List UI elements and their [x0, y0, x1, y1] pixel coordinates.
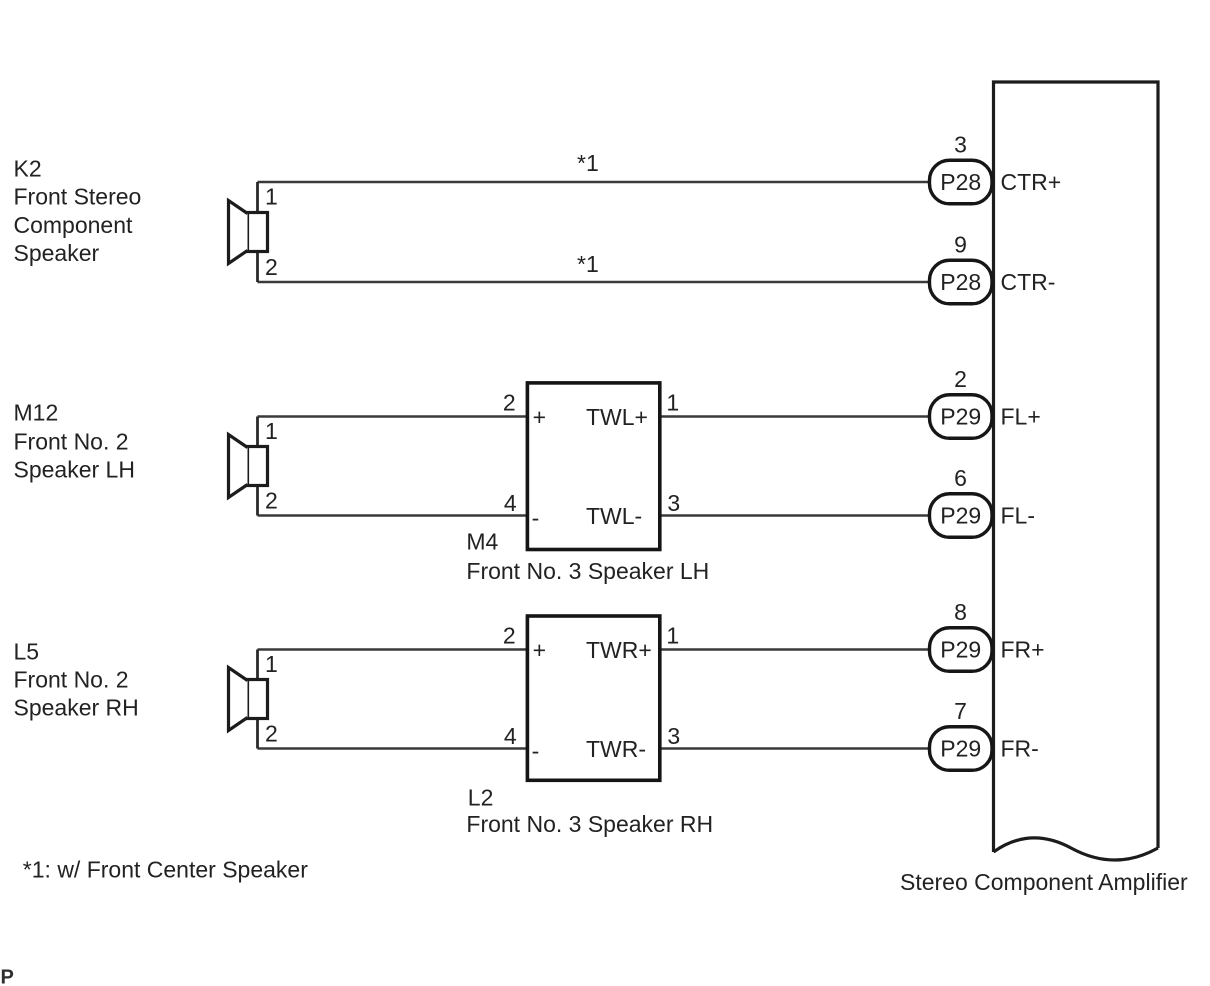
svg-text:Front Stereo: Front Stereo: [14, 184, 142, 210]
wire M4 pin3 to P29-6: [660, 514, 930, 517]
wire L2 pin1 to P29-8: [660, 648, 930, 651]
svg-text:Front No. 3 Speaker LH: Front No. 3 Speaker LH: [466, 558, 709, 584]
svg-text:8: 8: [954, 599, 967, 625]
svg-text:TWR+: TWR+: [586, 637, 652, 663]
svg-text:Speaker: Speaker: [14, 240, 100, 266]
amplifier box (Stereo Component Amplifier): [994, 82, 1159, 860]
svg-text:1: 1: [265, 418, 278, 444]
svg-text:1: 1: [666, 390, 679, 416]
svg-text:2: 2: [265, 721, 278, 747]
connector P29 pin8 (FR+): [930, 599, 1045, 671]
svg-text:L2: L2: [468, 785, 494, 811]
svg-text:P29: P29: [940, 736, 981, 762]
wire K2 pin2 to P28-9: [258, 281, 931, 284]
svg-text:1: 1: [666, 623, 679, 649]
wire L5 pin2 to L2 pin4: [258, 747, 528, 750]
speaker L5: [229, 650, 268, 749]
wire M4 pin1 to P29-2: [660, 415, 930, 418]
svg-text:-: -: [532, 738, 540, 764]
svg-text:Stereo Component Amplifier: Stereo Component Amplifier: [900, 869, 1188, 895]
svg-text:*1: *1: [577, 251, 599, 277]
svg-text:Front No. 2: Front No. 2: [14, 429, 129, 455]
connector P29 pin6 (FL-): [930, 465, 1036, 537]
svg-text:2: 2: [954, 366, 967, 392]
svg-text:*1: *1: [577, 150, 599, 176]
svg-text:P28: P28: [940, 269, 981, 295]
svg-text:3: 3: [667, 490, 680, 516]
svg-text:1: 1: [265, 184, 278, 210]
svg-text:2: 2: [265, 488, 278, 514]
speaker M12: [229, 417, 268, 516]
svg-text:-: -: [532, 505, 540, 531]
svg-text:L5: L5: [14, 639, 40, 665]
svg-text:Speaker RH: Speaker RH: [14, 695, 139, 721]
svg-text:TWL-: TWL-: [586, 503, 642, 529]
svg-text:7: 7: [954, 698, 967, 724]
svg-text:Speaker LH: Speaker LH: [14, 457, 135, 483]
svg-text:3: 3: [667, 723, 680, 749]
svg-text:P29: P29: [940, 637, 981, 663]
svg-text:CTR-: CTR-: [1001, 269, 1056, 295]
svg-text:Front No. 3 Speaker RH: Front No. 3 Speaker RH: [466, 811, 713, 837]
svg-text:Front No. 2: Front No. 2: [14, 667, 129, 693]
box L2 (Front No. 3 Speaker RH): [527, 616, 659, 780]
svg-text:2: 2: [503, 623, 516, 649]
svg-text:+: +: [533, 404, 546, 430]
svg-text:P29: P29: [940, 503, 981, 529]
svg-text:6: 6: [954, 465, 967, 491]
svg-text:FL+: FL+: [1001, 404, 1041, 430]
svg-text:P: P: [1, 967, 14, 986]
svg-text:Component: Component: [14, 212, 134, 238]
svg-text:TWR-: TWR-: [586, 736, 646, 762]
svg-text:M12: M12: [14, 400, 59, 426]
wire L5 pin1 to L2 pin2: [258, 648, 528, 651]
svg-text:9: 9: [954, 232, 967, 258]
connector P28 pin3 (CTR+): [930, 132, 1062, 204]
connector P28 pin9 (CTR-): [930, 232, 1056, 304]
svg-text:TWL+: TWL+: [586, 404, 648, 430]
wire M12 pin2 to M4 pin4: [258, 514, 528, 517]
svg-text:+: +: [533, 637, 546, 663]
connector P29 pin7 (FR-): [930, 698, 1039, 770]
svg-text:CTR+: CTR+: [1001, 169, 1062, 195]
wire M12 pin1 to M4 pin2: [258, 415, 528, 418]
connector P29 pin2 (FL+): [930, 366, 1041, 438]
svg-text:FR-: FR-: [1001, 736, 1039, 762]
box M4 (Front No. 3 Speaker LH): [527, 383, 659, 550]
svg-text:2: 2: [503, 390, 516, 416]
svg-text:K2: K2: [14, 156, 42, 182]
svg-text:FL-: FL-: [1001, 503, 1036, 529]
svg-text:P29: P29: [940, 404, 981, 430]
speaker K2: [229, 182, 268, 282]
svg-text:*1: w/ Front Center Speaker: *1: w/ Front Center Speaker: [23, 857, 308, 883]
svg-text:M4: M4: [466, 529, 498, 555]
wire L2 pin3 to P29-7: [660, 747, 930, 750]
wire K2 pin1 to P28-3: [258, 181, 931, 184]
svg-text:2: 2: [265, 254, 278, 280]
svg-text:4: 4: [504, 490, 517, 516]
svg-text:1: 1: [265, 651, 278, 677]
svg-text:FR+: FR+: [1001, 637, 1045, 663]
svg-text:3: 3: [954, 132, 967, 158]
svg-text:P28: P28: [940, 169, 981, 195]
svg-text:4: 4: [504, 723, 517, 749]
